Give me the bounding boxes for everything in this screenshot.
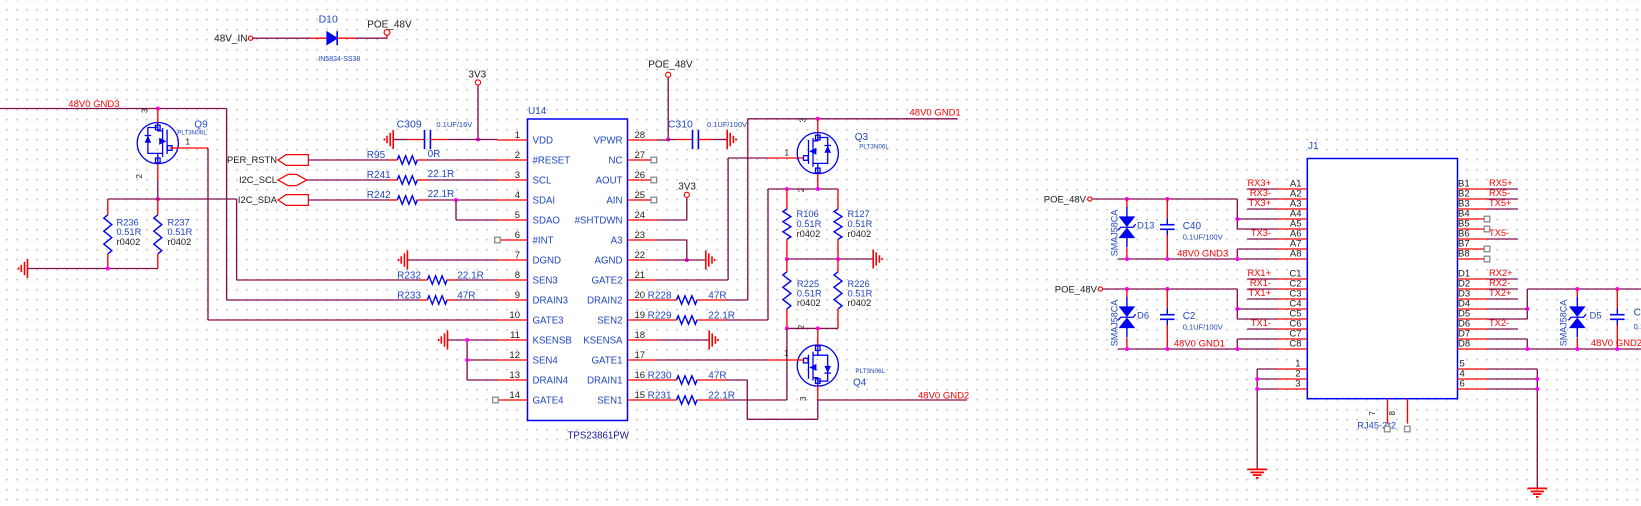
wire sense resistor bottoms to ground	[28, 268, 158, 270]
J1 pin 6	[1458, 388, 1488, 390]
svg-text:0.51R: 0.51R	[848, 289, 873, 299]
svg-text:0.51R: 0.51R	[797, 219, 822, 229]
J1 pin C2	[1277, 288, 1307, 290]
junction POE C4 tap	[1235, 307, 1239, 311]
U14 pin 1 VDD	[497, 139, 527, 141]
J1 pin B3	[1458, 208, 1488, 210]
J1 pin A2	[1277, 198, 1307, 200]
svg-text:22.1R: 22.1R	[457, 270, 484, 281]
svg-text:SDAI: SDAI	[533, 196, 556, 207]
U14 pin 27 NC	[628, 159, 652, 161]
svg-text:NC: NC	[609, 156, 623, 167]
svg-text:3: 3	[799, 396, 808, 401]
svg-text:R226: R226	[848, 279, 870, 289]
TVS diode D13	[1126, 199, 1128, 207]
wire GATE2 to Q3 gate	[658, 279, 729, 281]
svg-text:D6: D6	[1137, 310, 1149, 321]
resistor R106	[786, 189, 788, 209]
wire 3V3 to VDD	[477, 85, 479, 139]
wire PER_RSTN to R95	[308, 159, 388, 161]
wire I2C_SDA to R242	[308, 199, 388, 201]
svg-text:2: 2	[135, 173, 144, 178]
svg-text:A8: A8	[1290, 248, 1302, 259]
J1 pin B6	[1458, 238, 1488, 240]
junction A3/AGND	[685, 258, 689, 262]
junction D5 / C top	[1575, 287, 1579, 291]
svg-text:TX3-: TX3-	[1251, 228, 1271, 238]
J1 pin D8	[1458, 348, 1488, 350]
svg-text:3V3: 3V3	[468, 70, 486, 81]
svg-text:D10: D10	[319, 14, 338, 26]
svg-text:6: 6	[1460, 378, 1465, 389]
transistor Q3	[797, 133, 838, 174]
svg-text:3: 3	[1295, 378, 1300, 389]
wire POE_48V to VPWR	[667, 78, 669, 140]
earth ground left under J1	[1247, 468, 1267, 470]
wire J1 pins 5/4/6 to ground	[1536, 369, 1538, 488]
U14 pin 26 AOUT	[628, 179, 652, 181]
junction Q3 source / R106	[785, 187, 789, 191]
svg-text:#SHTDWN: #SHTDWN	[575, 216, 623, 227]
resistor R237	[157, 199, 159, 215]
svg-text:PER_RSTN: PER_RSTN	[227, 154, 277, 165]
svg-text:0.1UF/16V: 0.1UF/16V	[436, 120, 472, 129]
svg-text:16: 16	[635, 370, 646, 381]
junction GND1 node dots	[1125, 347, 1129, 351]
junction Q9 source node	[156, 197, 160, 201]
svg-text:RX2+: RX2+	[1489, 268, 1513, 278]
svg-text:1: 1	[515, 130, 520, 141]
ground for C309	[392, 130, 394, 149]
svg-text:r0402: r0402	[848, 229, 872, 239]
svg-text:AOUT: AOUT	[596, 176, 623, 187]
Q9 pin 3 lead (drain top)	[157, 109, 159, 123]
U14 pin 17 GATE1	[628, 359, 658, 361]
svg-text:IN5824-SS38: IN5824-SS38	[318, 56, 360, 63]
svg-text:#INT: #INT	[533, 236, 554, 247]
svg-text:12: 12	[509, 350, 520, 361]
svg-text:#RESET: #RESET	[533, 156, 571, 167]
svg-text:J1: J1	[1308, 141, 1319, 152]
power port POE_48V top	[384, 30, 390, 36]
U14 pin 13 DRAIN4	[497, 379, 527, 381]
junction POE D4 tap	[1525, 307, 1529, 311]
svg-text:TX1-: TX1-	[1251, 318, 1271, 328]
svg-text:8: 8	[515, 270, 520, 281]
svg-text:C8: C8	[1289, 338, 1301, 349]
svg-text:TX5-: TX5-	[1489, 228, 1509, 238]
U14 pin 11 KSENSB	[497, 339, 527, 341]
svg-text:10: 10	[509, 310, 520, 321]
wire D10 to POE_48V	[337, 37, 356, 39]
svg-text:SMAJ58CA: SMAJ58CA	[1558, 300, 1568, 347]
wire net 48V0 GND3 / Q9 drain to DRAIN3	[0, 108, 227, 110]
net 48V0 GND2 wire / Q4 drain	[818, 399, 967, 401]
net 48V0 GND1 wire / Q3 drain	[748, 118, 958, 120]
svg-text:GATE1: GATE1	[591, 356, 622, 367]
wire KSENSB/SEN4/DRAIN4 tie to ground	[448, 339, 498, 341]
junction sense ground node	[785, 257, 789, 261]
U14 pin 5 SDAO	[497, 219, 527, 221]
svg-text:6: 6	[515, 230, 520, 241]
wire AGND to ground	[658, 259, 706, 261]
svg-text:RX1+: RX1+	[1247, 268, 1271, 278]
junction GND3 node dots	[1125, 257, 1129, 261]
J1 pin D7	[1458, 338, 1488, 340]
wire A3 to AGND	[658, 239, 687, 241]
svg-text:7: 7	[515, 250, 520, 261]
svg-text:28: 28	[635, 130, 646, 141]
svg-text:GATE3: GATE3	[533, 316, 564, 327]
svg-text:PLT3N06L: PLT3N06L	[177, 130, 207, 137]
svg-text:r0402: r0402	[168, 237, 192, 247]
wire J1 pins 1-3 to ground	[1256, 369, 1258, 469]
junction R236 bottom	[106, 267, 110, 271]
TVS diode D6	[1126, 289, 1128, 297]
svg-text:R233: R233	[397, 290, 421, 301]
svg-text:2: 2	[797, 187, 806, 192]
resistor R226	[837, 259, 839, 272]
J1 pin D4	[1458, 308, 1488, 310]
U14 pin 24 #SHTDWN	[628, 219, 658, 221]
J1 pin D3	[1458, 298, 1488, 300]
J1 pin 8	[1407, 399, 1409, 424]
wire SEN1 riser	[786, 328, 788, 400]
svg-text:SMAJ58CA: SMAJ58CA	[1109, 210, 1119, 257]
J1 pin B5	[1458, 228, 1485, 230]
svg-text:U14: U14	[528, 106, 547, 117]
svg-text:19: 19	[635, 310, 646, 321]
svg-text:DRAIN2: DRAIN2	[587, 296, 623, 307]
J1 pin A8	[1277, 258, 1307, 260]
junction POE A4 tap	[1235, 217, 1239, 221]
wire sense ground node	[787, 258, 873, 260]
U14 pin 6 #INT	[500, 239, 527, 241]
svg-text:C310: C310	[668, 119, 693, 131]
diode D10	[327, 32, 337, 45]
ground left of R236	[27, 259, 29, 278]
svg-text:R95: R95	[367, 150, 386, 161]
svg-text:0.1UF/100V: 0.1UF/100V	[1183, 323, 1223, 332]
svg-text:R242: R242	[367, 190, 391, 201]
svg-text:D5: D5	[1590, 310, 1602, 321]
svg-text:0.1UF/100V: 0.1UF/100V	[1183, 233, 1223, 242]
U14 pin 25 AIN	[628, 199, 652, 201]
svg-text:0.51R: 0.51R	[797, 289, 822, 299]
J1 pin B7	[1458, 248, 1485, 250]
Q9 pin 2 lead (source)	[157, 163, 159, 180]
U14 pin 15 SEN1	[628, 399, 658, 401]
J1 pin D5	[1458, 318, 1488, 320]
svg-text:VDD: VDD	[533, 136, 553, 147]
svg-text:48V0 GND2: 48V0 GND2	[918, 390, 969, 401]
svg-text:22.1R: 22.1R	[428, 169, 455, 180]
svg-text:TX5+: TX5+	[1489, 198, 1511, 208]
svg-text:3: 3	[799, 117, 808, 122]
svg-text:48V_IN: 48V_IN	[214, 34, 247, 45]
J1 pin C4	[1277, 308, 1307, 310]
wire POE_48V to C4/C5	[1103, 288, 1237, 290]
ground KSENSA (pin 18)	[658, 339, 710, 341]
svg-text:KSENSA: KSENSA	[583, 336, 623, 347]
svg-text:AIN: AIN	[606, 196, 622, 207]
U14 pin 18 KSENSA	[628, 339, 658, 341]
svg-text:22.1R: 22.1R	[428, 189, 455, 200]
U14 pin 20 DRAIN2	[628, 299, 658, 301]
svg-text:Q4: Q4	[853, 378, 867, 389]
J1 pin B4	[1458, 218, 1485, 220]
wire Q4 source node	[787, 327, 838, 329]
J1 pin C1	[1277, 278, 1307, 280]
Q4 pin 3 lead (drain bottom)	[817, 386, 819, 400]
wire SEN3 with resistor R232	[237, 279, 420, 281]
svg-text:13: 13	[509, 370, 520, 381]
svg-text:PLT3N06L: PLT3N06L	[859, 143, 889, 150]
svg-text:27: 27	[635, 150, 646, 161]
svg-text:RX5-: RX5-	[1489, 188, 1510, 198]
wire Q3 source node to SEN2	[768, 188, 838, 190]
svg-text:KSENSB: KSENSB	[533, 336, 572, 347]
ground for C310	[726, 130, 728, 149]
J1 pin A1	[1277, 188, 1307, 190]
svg-text:R241: R241	[367, 170, 391, 181]
wire 3V3 to #SHTDWN	[686, 198, 688, 220]
svg-text:R106: R106	[797, 209, 819, 219]
svg-text:SEN1: SEN1	[597, 396, 622, 407]
svg-text:1: 1	[784, 348, 789, 358]
svg-text:48V0 GND1: 48V0 GND1	[910, 107, 961, 118]
J1 pin B2	[1458, 198, 1488, 200]
svg-text:DRAIN3: DRAIN3	[533, 296, 569, 307]
J1 pin 7	[1387, 399, 1389, 424]
svg-text:VPWR: VPWR	[593, 136, 622, 147]
U14 pin 8 SEN3	[497, 279, 527, 281]
J1 pin A3	[1277, 208, 1307, 210]
svg-text:PLT3N06L: PLT3N06L	[855, 368, 885, 375]
earth ground right under J1	[1528, 487, 1548, 489]
Q3 pin 3 lead (drain)	[817, 119, 819, 133]
transistor Q4	[797, 345, 838, 386]
resistor R225	[786, 259, 788, 272]
J1 pin 3	[1277, 388, 1307, 390]
svg-text:POE_48V: POE_48V	[1044, 195, 1087, 206]
U14 pin 23 A3	[628, 239, 658, 241]
wire DRAIN3 with resistor R233	[227, 299, 420, 301]
svg-text:RX3-: RX3-	[1250, 188, 1271, 198]
J1 pin B8	[1458, 258, 1485, 260]
U14 pin 10 GATE3	[497, 319, 527, 321]
junction SDAI/SDAO tie	[454, 198, 458, 202]
transistor Q9	[137, 123, 178, 164]
U14 pin 14 GATE4	[498, 399, 527, 401]
svg-text:POE_48V: POE_48V	[367, 19, 412, 30]
svg-text:SMAJ58CA: SMAJ58CA	[1109, 300, 1119, 347]
svg-text:Q3: Q3	[855, 132, 869, 143]
svg-text:C4: C4	[1634, 307, 1641, 318]
svg-text:3: 3	[140, 108, 149, 113]
J1 pin A4	[1277, 218, 1307, 220]
svg-text:0.51R: 0.51R	[168, 227, 193, 237]
svg-text:18: 18	[635, 330, 646, 341]
Q9 pin 1 lead (gate) to GATE3 wire	[170, 147, 208, 149]
svg-text:D13: D13	[1137, 220, 1154, 231]
svg-text:SCL: SCL	[533, 176, 552, 187]
U14 pin 16 DRAIN1	[628, 379, 658, 381]
svg-text:22: 22	[635, 250, 646, 261]
J1 pin D2	[1458, 288, 1488, 290]
svg-text:0R: 0R	[428, 149, 441, 160]
svg-text:SDAO: SDAO	[533, 216, 561, 227]
U14 pin 9 DRAIN3	[497, 299, 527, 301]
capacitor C40	[1166, 199, 1168, 219]
svg-text:I2C_SCL: I2C_SCL	[239, 174, 277, 185]
resistor R95	[397, 156, 417, 164]
capacitor C310	[668, 139, 676, 141]
svg-text:TX1+: TX1+	[1249, 288, 1271, 298]
wire GATE3	[208, 319, 497, 321]
svg-text:3V3: 3V3	[678, 181, 696, 192]
J1 pin 5	[1458, 368, 1488, 370]
svg-text:20: 20	[635, 290, 646, 301]
J1 pin A7	[1277, 248, 1307, 250]
svg-text:DRAIN1: DRAIN1	[587, 376, 623, 387]
J1 pin C3	[1277, 298, 1307, 300]
svg-text:11: 11	[510, 330, 520, 341]
svg-text:48V0 GND1: 48V0 GND1	[1174, 338, 1225, 349]
J1 pin C7	[1277, 338, 1307, 340]
IC U14 TPS23861PW body	[528, 119, 628, 421]
U14 pin 21 GATE2	[628, 279, 658, 281]
svg-text:R127: R127	[848, 209, 870, 219]
ground KSENSB (pin 11)	[447, 331, 449, 350]
wire GATE1 to Q4 gate	[658, 359, 769, 361]
svg-text:AGND: AGND	[595, 256, 623, 267]
U14 pin 4 SDAI	[497, 199, 527, 201]
J1 pin A6	[1277, 238, 1307, 240]
svg-text:I2C_SDA: I2C_SDA	[238, 194, 278, 205]
svg-text:1: 1	[784, 147, 789, 157]
svg-text:0.51R: 0.51R	[117, 227, 142, 237]
svg-text:D8: D8	[1458, 338, 1470, 349]
svg-text:R237: R237	[168, 217, 190, 227]
U14 pin 19 SEN2	[628, 319, 658, 321]
svg-text:RX5+: RX5+	[1489, 178, 1513, 188]
wire POE_48V to A4/A5	[1092, 198, 1237, 200]
svg-text:GATE4: GATE4	[533, 396, 565, 407]
svg-text:1: 1	[185, 137, 190, 147]
junction J1 pin 4/6 ties	[1535, 377, 1539, 381]
svg-text:R232: R232	[397, 270, 421, 281]
J1 pin C8	[1277, 348, 1307, 350]
svg-text:SEN4: SEN4	[533, 356, 559, 367]
U14 pin 22 AGND	[628, 259, 658, 261]
svg-text:5: 5	[515, 210, 520, 221]
svg-text:B8: B8	[1458, 248, 1470, 259]
svg-text:23: 23	[635, 230, 646, 241]
svg-text:DGND: DGND	[533, 256, 562, 267]
junction D13 / C40 top	[1125, 197, 1129, 201]
svg-text:21: 21	[635, 270, 646, 281]
svg-text:RX3+: RX3+	[1247, 178, 1271, 188]
svg-text:0.1UF/100V: 0.1UF/100V	[707, 120, 747, 129]
svg-text:RX1-: RX1-	[1250, 278, 1271, 288]
Q4 pin 2 lead (source top)	[817, 328, 819, 345]
J1 pin C6	[1277, 328, 1307, 330]
svg-text:47R: 47R	[457, 290, 475, 301]
J1 pin D1	[1458, 278, 1488, 280]
svg-text:3: 3	[515, 170, 520, 181]
svg-text:C2: C2	[1183, 311, 1196, 322]
junction Q4 source node / SEN1	[785, 326, 789, 330]
wire 48V_IN to D10	[253, 37, 310, 39]
svg-text:17: 17	[635, 350, 646, 361]
svg-text:0.1: 0.1	[1634, 322, 1641, 331]
svg-text:SEN3: SEN3	[533, 276, 558, 287]
U14 pin 7 DGND	[497, 259, 527, 261]
svg-text:GATE2: GATE2	[591, 276, 622, 287]
capacitor C2	[1166, 289, 1168, 309]
J1 pin 2	[1277, 378, 1307, 380]
junction VPWR/C310	[666, 138, 670, 142]
svg-text:9: 9	[515, 290, 520, 301]
ground sense node	[872, 250, 874, 269]
svg-text:r0402: r0402	[117, 237, 141, 247]
J1 pin B1	[1458, 188, 1488, 190]
svg-text:C40: C40	[1183, 221, 1202, 232]
svg-text:14: 14	[509, 390, 520, 401]
svg-text:4: 4	[515, 190, 520, 201]
svg-text:r0402: r0402	[797, 229, 821, 239]
junction D6 / C2 top	[1125, 287, 1129, 291]
J1 pin 1	[1277, 368, 1307, 370]
resistor R241	[397, 176, 417, 184]
resistor R127	[837, 189, 839, 209]
svg-text:r0402: r0402	[848, 298, 872, 308]
J1 pin A5	[1277, 228, 1307, 230]
ground DGND (pin 7)	[406, 251, 408, 270]
svg-text:15: 15	[635, 390, 646, 401]
svg-text:7: 7	[1368, 410, 1377, 415]
svg-text:DRAIN4: DRAIN4	[533, 376, 569, 387]
svg-text:0.51R: 0.51R	[848, 219, 873, 229]
svg-text:C309: C309	[397, 119, 422, 131]
svg-text:R225: R225	[797, 279, 819, 289]
J1 pin D6	[1458, 328, 1488, 330]
resistor R242	[397, 196, 417, 204]
U14 pin 28 VPWR	[628, 139, 658, 141]
junction GND2 node dots	[1525, 347, 1529, 351]
U14 pin 2 #RESET	[497, 159, 527, 161]
svg-text:A3: A3	[611, 236, 623, 247]
U14 pin 3 SCL	[497, 179, 527, 181]
svg-text:TX2+: TX2+	[1489, 288, 1511, 298]
svg-text:26: 26	[635, 170, 646, 181]
capacitor C309	[393, 139, 408, 141]
svg-text:POE_48V: POE_48V	[1055, 285, 1098, 296]
J1 pin C5	[1277, 318, 1307, 320]
svg-text:2: 2	[797, 324, 806, 329]
wire POE_48V to D4/D5 (right section)	[1527, 288, 1641, 290]
svg-text:r0402: r0402	[797, 298, 821, 308]
connector J1 body RJ45-2x2	[1307, 159, 1457, 399]
junction J1 pin 2/3 ties	[1255, 377, 1259, 381]
svg-text:TX3+: TX3+	[1249, 198, 1271, 208]
svg-text:SEN2: SEN2	[597, 316, 622, 327]
svg-text:25: 25	[635, 190, 646, 201]
svg-text:48V0 GND3: 48V0 GND3	[1177, 248, 1228, 259]
junction Q3 drain	[816, 117, 820, 121]
Q3 pin 2 lead (source)	[817, 173, 819, 189]
